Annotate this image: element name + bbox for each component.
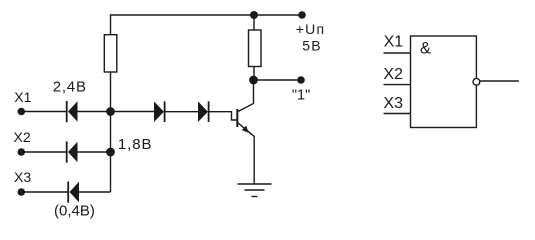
svg-text:2,4В: 2,4В bbox=[53, 79, 87, 96]
svg-text:+Uп: +Uп bbox=[296, 21, 325, 37]
svg-text:X3: X3 bbox=[14, 169, 31, 185]
svg-text:X2: X2 bbox=[14, 129, 31, 145]
svg-text:&: & bbox=[420, 40, 431, 58]
svg-text:5В: 5В bbox=[302, 38, 322, 54]
svg-text:X1: X1 bbox=[14, 89, 31, 105]
svg-text:X2: X2 bbox=[383, 66, 403, 83]
svg-text:(0,4В): (0,4В) bbox=[54, 203, 95, 220]
svg-text:X1: X1 bbox=[384, 34, 404, 51]
svg-text:1,8В: 1,8В bbox=[118, 136, 152, 153]
svg-text:"1": "1" bbox=[292, 88, 310, 104]
svg-text:X3: X3 bbox=[383, 95, 403, 112]
